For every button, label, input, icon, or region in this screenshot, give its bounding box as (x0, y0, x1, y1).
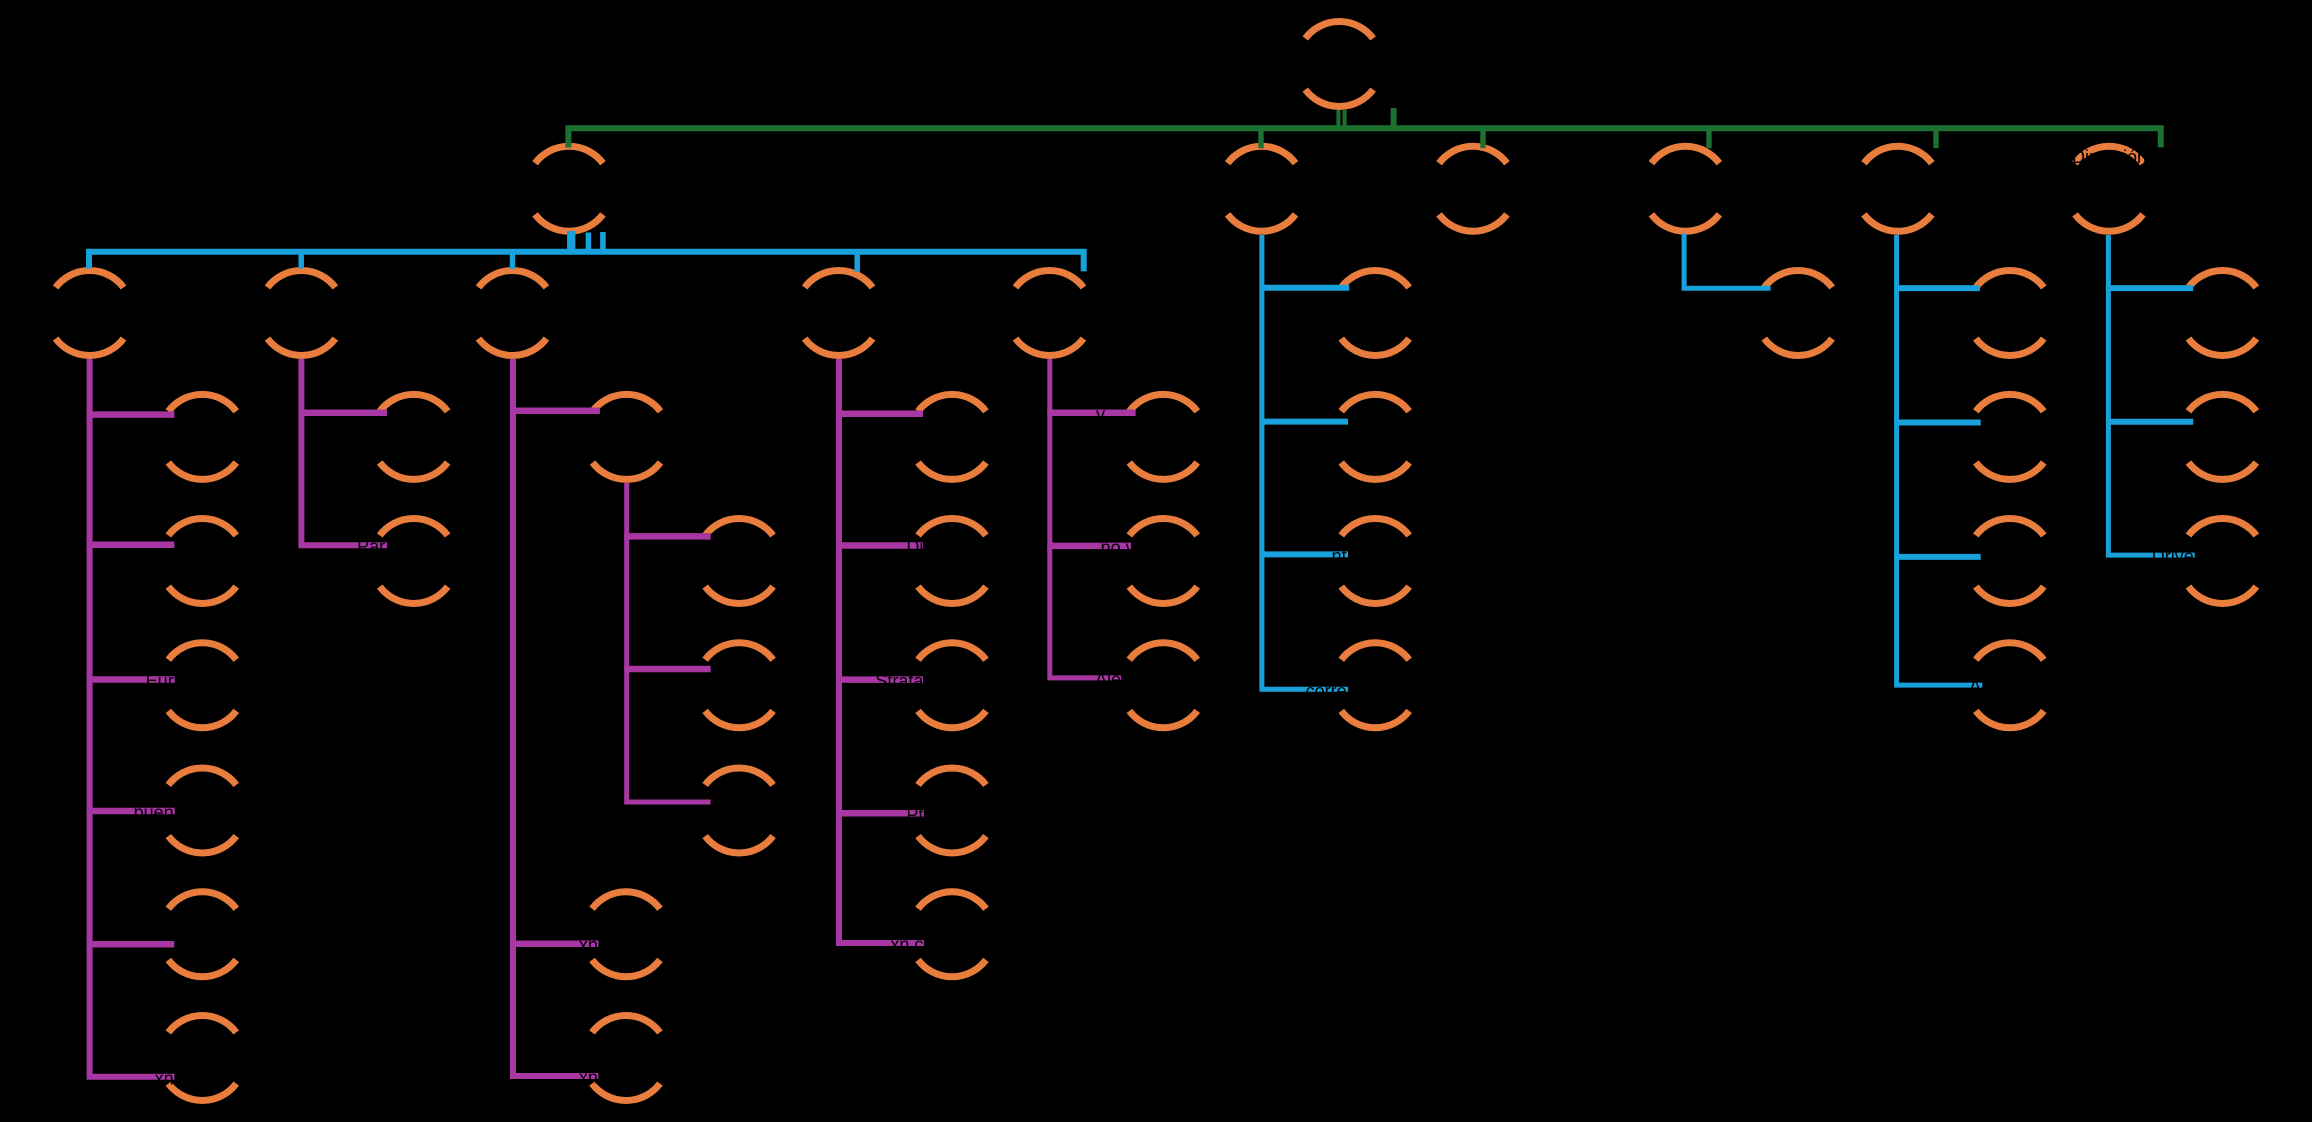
svg-text:corre: corre (1306, 681, 1347, 701)
node L3-5 (1016, 270, 1084, 355)
node t3c2 (592, 892, 660, 977)
node tAB1 (705, 518, 773, 603)
node t1c2 (168, 518, 236, 603)
wire blue stub n6-1 (2106, 285, 2193, 291)
wire green stub x1483 (1480, 125, 1485, 148)
wire blue stub n2-1 (1259, 285, 1349, 291)
wire blue trunk n2 (1262, 235, 1348, 689)
wire green stub x1936 (1933, 125, 1938, 148)
wire blue riser a (567, 231, 575, 252)
node n2c1 (1341, 270, 1409, 355)
node t4c4 (918, 768, 986, 853)
wire blue stub x857.2 (854, 249, 860, 272)
node n5c3 (1976, 518, 2044, 603)
node n6c2 (2188, 394, 2256, 479)
node t1c3 (168, 643, 236, 728)
wire blue stub n5-3 (1894, 554, 1981, 560)
node t1c4 (168, 768, 236, 853)
svg-text:xn: xn (579, 1068, 598, 1088)
wire magenta stub t4 y545.5 (836, 542, 923, 549)
wire magenta stub t5-2 (1047, 543, 1131, 550)
svg-text:Dirección: Dirección (2072, 147, 2147, 167)
node n6c1 (2188, 270, 2256, 355)
wire magenta stub t4 y413.7 (836, 410, 923, 417)
wire blue stub n6-2 (2106, 419, 2193, 425)
wire magenta stub t4 y679.6 (836, 676, 923, 683)
svg-text:xn: xn (155, 1068, 174, 1088)
wire magenta stub t1 y811.0 (87, 808, 175, 815)
wire magenta stub tA-1 (624, 533, 710, 540)
node t4c3 (918, 643, 986, 728)
node L2-2 (1228, 146, 1296, 231)
node t4c1 (918, 394, 986, 479)
svg-text:no v: no v (1101, 537, 1135, 557)
svg-text:y: y (1096, 404, 1105, 424)
svg-text:Ale: Ale (1095, 669, 1121, 689)
wire magenta stub t5-1 (1047, 410, 1135, 417)
svg-text:Eur: Eur (146, 671, 174, 691)
wire magenta trunk t4 (839, 359, 924, 943)
svg-text:Drive: Drive (2152, 547, 2194, 567)
wire magenta stub tA-2 (624, 666, 710, 673)
node tAB3 (705, 768, 773, 853)
node t2c2 (380, 518, 448, 603)
wire blue riser b (586, 233, 592, 252)
wire magenta trunk t3 (513, 359, 598, 1076)
node n4c1 (1764, 270, 1832, 355)
wire blue stub n5-2 (1894, 420, 1981, 426)
wire blue elbow n4 (1684, 234, 1771, 288)
node L3-3 (479, 270, 547, 355)
wire green sibling line L1-L2 (568, 128, 2160, 147)
node t2c1 (380, 394, 448, 479)
wire magenta stub t4 y813.3 (836, 810, 924, 817)
wire magenta trunk t1 (90, 359, 175, 1077)
node t1c6 (168, 1015, 236, 1100)
node n6c3 (2188, 518, 2256, 603)
node L2-5 (1864, 146, 1932, 231)
node t5c3 (1129, 643, 1197, 728)
wire magenta stub t1 y944.2 (87, 941, 175, 948)
svg-text:buen: buen (134, 803, 174, 823)
wire blue stub n2-3 (1259, 551, 1348, 557)
wire magenta stub t2-1 (299, 409, 387, 416)
node n2c2 (1341, 394, 1409, 479)
svg-text:xn c: xn c (890, 935, 923, 955)
node t5c1 (1129, 394, 1197, 479)
svg-text:Strata: Strata (875, 671, 924, 691)
node root (1305, 21, 1373, 106)
node n5c2 (1976, 394, 2044, 479)
node L3-1 (56, 270, 124, 355)
node L3-2 (267, 270, 335, 355)
wire green riser b (1343, 110, 1347, 128)
wire magenta stub t1 y414.6 (87, 411, 175, 418)
svg-text:Pt: Pt (906, 805, 923, 825)
node tAB2 (705, 643, 773, 728)
node L2-6 (2075, 146, 2143, 231)
svg-text:Par: Par (357, 537, 385, 557)
wire blue stub x512.5 (510, 249, 516, 269)
node t4c2 (918, 518, 986, 603)
node t1c5 (168, 892, 236, 977)
node t3A (593, 394, 661, 479)
wire magenta stub t3-2 (510, 940, 598, 947)
wire magenta trunk tA (627, 483, 711, 802)
svg-text:A: A (1969, 677, 1981, 697)
wire magenta trunk t2 (301, 359, 387, 545)
node n5c4 (1976, 643, 2044, 728)
node t3c3 (592, 1015, 660, 1100)
wire blue stub n5-1 (1894, 285, 1980, 291)
wire blue sibling line (89, 252, 1084, 272)
node t1c1 (168, 394, 236, 479)
wire green riser a (1336, 110, 1340, 128)
node L2-3 (1439, 146, 1507, 231)
node L2-4 (1651, 146, 1719, 231)
wire magenta stub t1 y679.5 (87, 676, 175, 683)
node t5c2 (1129, 518, 1197, 603)
wire green stub x1261 (1258, 125, 1263, 148)
wire blue trunk n6 (2108, 235, 2194, 555)
wire magenta stub t3-1 (510, 407, 600, 414)
node t4c5 (918, 892, 986, 977)
wire blue stub x301.2 (298, 249, 304, 269)
node L2-1 (535, 146, 603, 231)
node n2c4 (1341, 643, 1409, 728)
node n5c1 (1976, 270, 2044, 355)
wire blue stub n2-2 (1259, 419, 1348, 425)
wire blue trunk n5 (1897, 235, 1983, 685)
wire green riser c (1391, 108, 1397, 128)
wire magenta trunk t5 (1050, 359, 1121, 678)
svg-text:nt: nt (1332, 546, 1347, 566)
node L3-4 (805, 270, 873, 355)
wire magenta stub t1 y544.8 (87, 542, 175, 549)
node n2c3 (1341, 518, 1409, 603)
wire green stub x1709 (1706, 125, 1711, 148)
wire blue riser c (600, 232, 606, 252)
svg-text:xn: xn (579, 935, 598, 955)
svg-text:Di: Di (906, 537, 923, 557)
